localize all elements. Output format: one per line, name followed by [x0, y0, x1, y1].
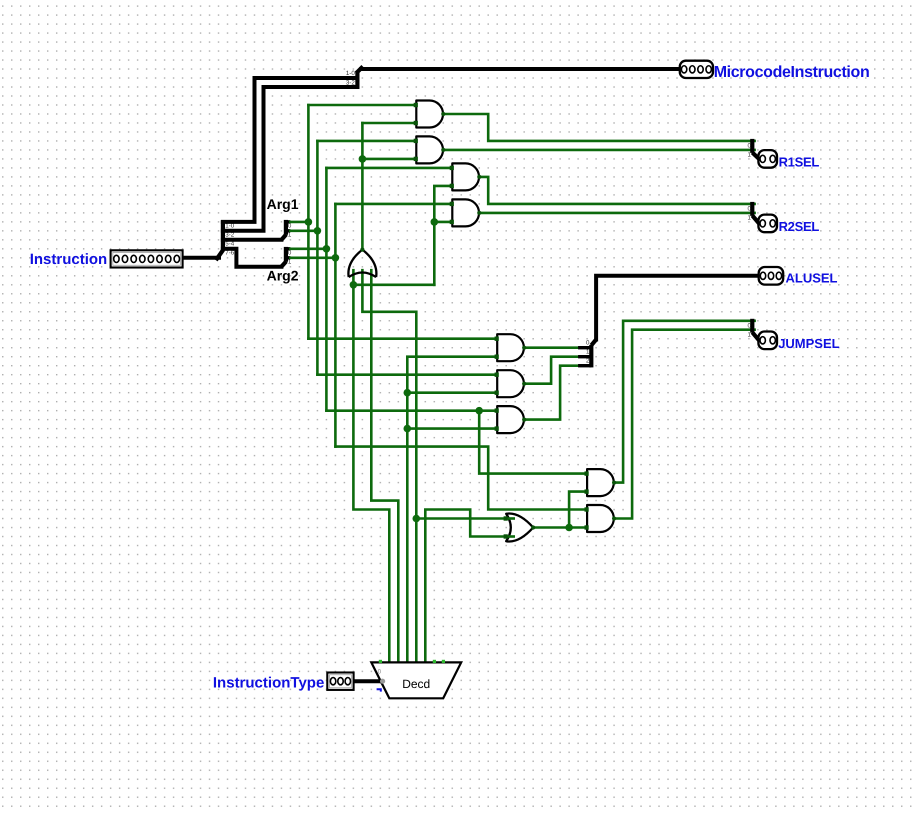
- svg-text:Arg2: Arg2: [267, 267, 299, 283]
- and-gate G3: [450, 163, 482, 190]
- wire Arg2.1 vertical to G4/G9: [334, 204, 337, 447]
- output pin ALUSEL: [759, 267, 784, 285]
- label MicrocodeInstruction: [714, 64, 870, 81]
- svg-text:0: 0: [378, 669, 382, 676]
- svg-text:JUMPSEL: JUMPSEL: [778, 336, 839, 351]
- wire OR1 middle input net: [362, 270, 416, 518]
- wire Arg1.0 vertical to G1/G5: [307, 105, 310, 339]
- output pin MicrocodeInstruction: [680, 61, 713, 78]
- node Arg2.1 junction: [332, 254, 340, 262]
- svg-text:1: 1: [748, 331, 752, 338]
- wire OR1-out net vertical: [361, 123, 364, 250]
- label Arg2: [267, 267, 299, 283]
- wire bus SP1 branch 1-0 to top splitter: [223, 78, 358, 222]
- svg-text:ALUSEL: ALUSEL: [786, 270, 838, 285]
- and-gate G5: [495, 334, 527, 361]
- wire to OR2 top input: [416, 517, 506, 520]
- splitter JUMPSEL: [748, 319, 759, 341]
- svg-text:1: 1: [288, 258, 292, 265]
- svg-text:Arg1: Arg1: [267, 196, 299, 212]
- wire OR1-out to G2 bottom: [362, 158, 416, 161]
- and-gate G4: [450, 199, 482, 226]
- svg-text:0: 0: [586, 339, 590, 346]
- wire G4 out to R2SEL.1: [479, 212, 754, 215]
- wire G8 out to JUMPSEL.0: [614, 321, 755, 483]
- svg-text:InstructionType: InstructionType: [213, 674, 324, 691]
- wire G6 out to ALUSEL.1: [524, 357, 578, 384]
- node G4-bottom junction: [431, 218, 439, 226]
- wire Arg2.0 vertical to G3/G7: [325, 168, 328, 411]
- wire bus SP1 branch 7-6 to Arg2 splitter: [223, 249, 282, 267]
- output pin R1SEL: [758, 150, 777, 168]
- wire Arg1.1 to G2 top: [317, 140, 416, 143]
- wire Arg2.0 to G7 top: [326, 409, 497, 412]
- svg-text:0: 0: [288, 223, 292, 230]
- wire to G4 bottom: [434, 221, 452, 224]
- svg-text:0: 0: [288, 249, 292, 256]
- input pin InstructionType: [327, 673, 353, 690]
- decoder enable marker: [377, 689, 381, 691]
- wire G5 out to ALUSEL.0: [524, 346, 578, 349]
- wire G9 out to JUMPSEL.1: [614, 330, 755, 519]
- splitter R2SEL: [748, 202, 759, 224]
- wire G2 out to R1SEL.1: [443, 149, 754, 152]
- label ALUSEL: [786, 270, 838, 285]
- decoder select pin marker: [378, 669, 386, 684]
- svg-text:R2SEL: R2SEL: [779, 219, 820, 234]
- splitter ALUSEL: [578, 339, 596, 367]
- wire G3 out to R2SEL.0: [479, 177, 754, 204]
- wire Arg2.1 to G9 top: [335, 447, 587, 510]
- node Arg2.0 junction: [323, 245, 331, 253]
- svg-text:0: 0: [748, 322, 752, 329]
- wire Arg1.0 to G5 top: [308, 337, 497, 340]
- wire Arg2.1 branch: [290, 256, 335, 259]
- wire OR2 out net: [533, 526, 587, 529]
- wire G1 out to R1SEL.0: [443, 114, 754, 141]
- and-gate G6: [495, 370, 527, 397]
- node OR2-out junction: [565, 524, 573, 532]
- wire decoder out1 to OR1-left net: [353, 285, 389, 663]
- label Arg1: [267, 196, 299, 212]
- node out3-G7 junction: [404, 425, 412, 433]
- wire bus SP1 branch 5-4 to Arg1 splitter: [223, 238, 282, 242]
- label R2SEL: [779, 219, 820, 234]
- label Instruction: [30, 251, 108, 268]
- wire Arg2.0 to G3 top: [326, 167, 452, 170]
- wire decoder out5 to OR2 bottom: [425, 510, 506, 663]
- output pin JUMPSEL: [758, 332, 777, 350]
- splitter Arg2 (7-6 to two 1-bit): [281, 247, 292, 267]
- svg-text:Instruction: Instruction: [30, 251, 108, 268]
- wire Arg1.0 to G1 top: [308, 104, 416, 107]
- svg-text:1: 1: [748, 152, 752, 159]
- and-gate G9: [585, 505, 617, 532]
- node Arg1.1 junction: [314, 227, 322, 235]
- wire bus to MicrocodeInstruction pin: [361, 67, 680, 71]
- wire Arg2.0 branch: [290, 248, 326, 251]
- node out3-G6 junction: [404, 389, 412, 397]
- wire Arg2.1 to G4 top: [335, 203, 452, 206]
- wire G7 out to ALUSEL.2: [524, 366, 578, 420]
- or-gate OR2 (east facing): [504, 514, 536, 542]
- svg-text:0: 0: [748, 206, 752, 213]
- wire out3 to G7 bottom: [407, 427, 497, 430]
- input pin Instruction: [111, 250, 183, 267]
- and-gate G2: [414, 136, 446, 163]
- splitter R1SEL: [748, 139, 759, 159]
- wire OR1-out to G1 bottom: [362, 122, 416, 125]
- wire out3 to G6 bottom: [407, 391, 497, 394]
- splitter SP1 (8-bit fanout 1-0/3-2/5-4/7-6): [216, 220, 235, 260]
- wire OR2 out up to G8 bottom: [569, 492, 587, 528]
- label R1SEL: [779, 154, 820, 169]
- wire bus Instruction pin to splitter SP1: [183, 256, 219, 260]
- svg-text:1: 1: [586, 348, 590, 355]
- wire OR1 right input net: [371, 270, 398, 662]
- wire Arg1.1 branch: [290, 230, 317, 233]
- wire bus ALUSEL splitter to pin: [596, 276, 759, 340]
- wire bus InstructionType to decoder select: [354, 679, 383, 683]
- svg-text:1: 1: [748, 215, 752, 222]
- wire OR1 left input up: [352, 270, 355, 285]
- svg-text:MicrocodeInstruction: MicrocodeInstruction: [714, 64, 870, 81]
- svg-text:1: 1: [288, 232, 292, 239]
- wire OR1-left horizontal link: [353, 283, 434, 286]
- node Arg1.0 junction: [305, 218, 313, 226]
- output pin R2SEL: [758, 215, 777, 233]
- svg-text:R1SEL: R1SEL: [779, 154, 820, 169]
- svg-text:3-2: 3-2: [346, 80, 356, 87]
- and-gate G1: [414, 101, 446, 128]
- decoder U1 Decd: [371, 662, 461, 698]
- wire Arg1.0 branch: [290, 221, 308, 224]
- wire decoder out4 vertical: [415, 519, 418, 663]
- wire bus SP1 branch 3-2 to top splitter: [223, 87, 358, 231]
- and-gate G7: [495, 406, 527, 433]
- or-gate OR1 (north facing, 3 inputs): [348, 248, 376, 278]
- splitter Arg1 (5-4 to two 1-bit): [281, 220, 292, 240]
- wire G3-bottom net: [434, 186, 452, 285]
- splitter MC (combines 1-0,3-2 to MicrocodeInstruction): [346, 67, 363, 89]
- wire Arg1.1 to G6 top: [317, 373, 497, 376]
- and-gate G8: [585, 469, 617, 496]
- svg-text:2: 2: [586, 357, 590, 364]
- svg-text:0: 0: [748, 143, 752, 150]
- svg-text:Decd: Decd: [402, 677, 430, 691]
- label JUMPSEL: [778, 336, 839, 351]
- wire decoder out3 net: [407, 357, 497, 663]
- node OR1-out junction: [359, 155, 367, 163]
- wire Arg1.1 vertical to G2/G6: [316, 141, 319, 375]
- label InstructionType: [213, 674, 324, 691]
- node OR1 left-input junction: [350, 281, 358, 289]
- node OR2 top-input junction: [413, 515, 421, 523]
- wire G7-top net down to G8 top: [479, 411, 587, 474]
- node G7-top junction to G8: [475, 407, 483, 415]
- svg-text:1-0: 1-0: [346, 70, 356, 77]
- decoder unconnected output pads: [379, 660, 445, 663]
